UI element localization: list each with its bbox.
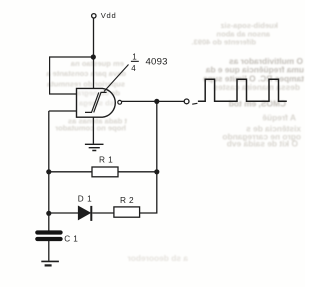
svg-text:D1: D1 bbox=[78, 195, 95, 204]
wire: lower gate input to left rail bbox=[49, 110, 77, 112]
svg-text:R2: R2 bbox=[120, 195, 137, 205]
junction dot at Vdd rail bbox=[91, 54, 96, 59]
diode D1 cathode bar bbox=[90, 206, 92, 221]
svg-text:C1: C1 bbox=[64, 234, 80, 243]
Schmitt trigger hysteresis symbol bbox=[85, 92, 107, 112]
resistor R1 box bbox=[92, 167, 118, 177]
svg-text:dessa maneira castes: dessa maneira castes bbox=[213, 82, 300, 92]
svg-text:hope no comutador: hope no comutador bbox=[55, 124, 126, 133]
output square waveform bbox=[198, 79, 287, 101]
wire: D1 to R2 bbox=[92, 212, 114, 214]
wire: R1 to right rail bbox=[118, 171, 157, 173]
output bubble bbox=[118, 100, 122, 104]
svg-text:4093: 4093 bbox=[146, 57, 168, 68]
svg-text:a sb deoorebor: a sb deoorebor bbox=[127, 253, 188, 263]
wire: feedback loop to upper gate input bbox=[50, 57, 94, 94]
wire: left rail to R1 bbox=[49, 171, 92, 173]
svg-text:diferente do 4093.: diferente do 4093. bbox=[191, 38, 256, 47]
junction dot left rail / R1 bbox=[46, 169, 51, 174]
Vdd terminal circle bbox=[92, 14, 96, 18]
pointer line from 1/4 4093 label to gate bbox=[104, 65, 129, 92]
junction dot right rail / R1 bbox=[154, 169, 159, 174]
fraction bar bbox=[131, 61, 139, 62]
svg-text:4: 4 bbox=[131, 64, 136, 73]
svg-text:em questao na: em questao na bbox=[70, 59, 124, 68]
svg-text:1: 1 bbox=[132, 53, 137, 62]
svg-text:O kit de saida evb: O kit de saida evb bbox=[227, 139, 298, 149]
output waveform start dash bbox=[192, 102, 197, 105]
wire: C1 to ground bbox=[48, 241, 50, 261]
capacitor C1 bottom plate bbox=[35, 237, 63, 241]
resistor R2 box bbox=[114, 207, 140, 217]
wire: Vdd down to gate top bbox=[93, 18, 95, 88]
wire: right rail from output down to R2 bbox=[140, 101, 157, 213]
wire: left rail down to C1 bbox=[48, 111, 50, 231]
junction dot on output wire bbox=[154, 99, 159, 104]
wire: gate output to terminal bbox=[122, 100, 185, 102]
svg-text:R1: R1 bbox=[99, 155, 116, 165]
capacitor C1 top plate bbox=[35, 230, 63, 234]
output terminal circle bbox=[184, 99, 189, 104]
svg-text:Vdd: Vdd bbox=[101, 11, 117, 20]
ground symbol under gate bbox=[85, 144, 104, 150]
junction dot left rail / D1 row bbox=[46, 211, 51, 216]
NAND gate U1 body bbox=[77, 88, 116, 117]
diode D1 triangle bbox=[78, 206, 90, 219]
svg-text:A freqüê: A freqüê bbox=[262, 113, 296, 123]
ground symbol under C1 bbox=[41, 260, 59, 262]
svg-text:dava para constante a: dava para constante a bbox=[45, 69, 126, 78]
wire: left rail to diode D1 bbox=[49, 212, 79, 214]
wire: gate bottom to ground bbox=[92, 117, 94, 144]
